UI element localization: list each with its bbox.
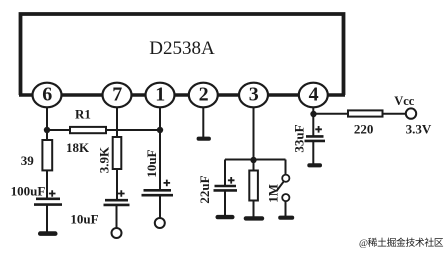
wire pin7 down xyxy=(116,107,118,138)
ground under pin2 xyxy=(197,137,211,141)
wire 39 to C100 xyxy=(46,170,48,198)
wire C10b to terminal xyxy=(159,195,161,218)
node junction pin6/R1 xyxy=(44,127,50,133)
wire C33 to ground xyxy=(312,141,314,164)
capacitor 22uF xyxy=(214,177,238,190)
svg-text:2: 2 xyxy=(199,84,209,106)
resistor R1 xyxy=(70,127,106,133)
wire R220 to Vcc terminal xyxy=(383,113,407,115)
resistor 1M xyxy=(249,171,258,201)
svg-text:100uF: 100uF xyxy=(11,183,46,198)
resistor 3.9K xyxy=(113,137,122,169)
ground under switch xyxy=(278,216,294,220)
wire R1 horizontal net pin6 to pin1 xyxy=(47,129,160,131)
pin 4 circle xyxy=(299,83,328,108)
terminal (pin1 branch) xyxy=(155,218,165,228)
node junction pin3 xyxy=(250,157,256,163)
wire C22 to ground xyxy=(224,190,226,215)
wire switch branch down xyxy=(285,160,287,175)
IC U1 body outline xyxy=(21,14,344,95)
pin 7 circle xyxy=(103,83,132,108)
terminal Vcc xyxy=(406,108,416,118)
ground under 1M xyxy=(244,216,265,220)
svg-text:4: 4 xyxy=(309,84,319,106)
wire pin1 down xyxy=(159,107,161,190)
svg-text:3.9K: 3.9K xyxy=(97,146,112,173)
svg-text:R1: R1 xyxy=(75,107,91,122)
wire pin3 down xyxy=(253,107,255,171)
pin 3 circle xyxy=(239,83,268,108)
svg-text:Vcc: Vcc xyxy=(394,94,415,108)
svg-text:33uF: 33uF xyxy=(292,124,307,152)
wire switch to ground xyxy=(285,201,287,216)
resistor 220 xyxy=(348,110,383,116)
wire 3.9K to C10a xyxy=(116,169,118,201)
wire pin3 branch horizontal xyxy=(225,159,286,161)
svg-text:39: 39 xyxy=(21,153,35,168)
svg-text:3: 3 xyxy=(249,84,259,106)
capacitor 10uF (pin7) xyxy=(104,190,130,205)
ground under 22uF xyxy=(216,215,235,219)
svg-text:18K: 18K xyxy=(66,140,90,155)
pin 2 circle xyxy=(189,83,218,108)
terminal (pin7 branch) xyxy=(112,228,122,238)
wire C10a to terminal xyxy=(116,205,118,228)
wire 1M to ground xyxy=(253,201,255,218)
IC bottom bus line xyxy=(19,93,345,97)
wire pin6 down xyxy=(46,107,48,141)
wire pin4 to R220 xyxy=(313,113,348,115)
wire pin2 down xyxy=(202,107,204,137)
wire 22uF branch down xyxy=(224,160,226,187)
node junction pin1/R1 xyxy=(157,127,163,133)
svg-text:D2538A: D2538A xyxy=(149,38,215,59)
capacitor 100uF xyxy=(34,190,62,204)
switch S1 xyxy=(276,175,289,202)
svg-text:220: 220 xyxy=(354,121,374,136)
node junction pin4 xyxy=(310,111,316,117)
svg-text:7: 7 xyxy=(112,84,122,106)
svg-text:6: 6 xyxy=(42,84,52,106)
capacitor 10uF (pin1) xyxy=(142,180,174,196)
ground under 100uF xyxy=(38,231,58,236)
svg-text:@稀土掘金技术社区: @稀土掘金技术社区 xyxy=(359,236,444,249)
svg-text:10uF: 10uF xyxy=(144,149,159,177)
ground under 33uF xyxy=(307,163,322,167)
svg-text:3.3V: 3.3V xyxy=(406,121,432,136)
svg-text:1M: 1M xyxy=(266,184,281,203)
pin 1 circle xyxy=(146,83,175,108)
resistor 39 xyxy=(42,140,52,170)
svg-text:22uF: 22uF xyxy=(197,175,212,203)
wire pin4 down xyxy=(312,107,314,136)
svg-text:10uF: 10uF xyxy=(70,211,98,226)
capacitor 33uF xyxy=(305,126,326,141)
wire C100 to ground xyxy=(46,205,48,232)
svg-text:1: 1 xyxy=(155,84,165,106)
pin 6 circle xyxy=(33,83,62,108)
